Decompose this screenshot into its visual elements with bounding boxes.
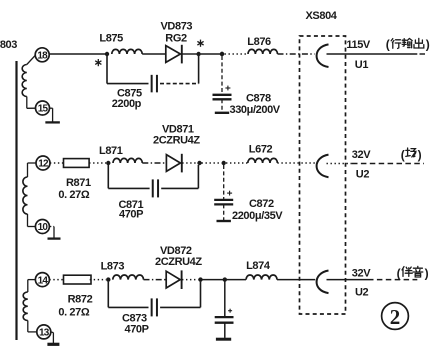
svg-text:): )	[426, 38, 430, 52]
svg-text:L875: L875	[99, 32, 123, 44]
svg-text:U2: U2	[355, 287, 369, 299]
svg-text:L871: L871	[99, 145, 123, 157]
svg-text:32V: 32V	[352, 267, 371, 279]
svg-text:14: 14	[38, 275, 49, 286]
svg-text:2: 2	[390, 305, 401, 329]
svg-text:VD871: VD871	[162, 123, 194, 135]
svg-text:VD872: VD872	[160, 245, 192, 257]
svg-text:(: (	[397, 267, 401, 281]
svg-text:12: 12	[38, 159, 49, 170]
svg-text:U2: U2	[356, 168, 370, 180]
svg-text:C873: C873	[122, 313, 147, 325]
svg-text:2CZRU4Z: 2CZRU4Z	[155, 256, 202, 268]
svg-text:15: 15	[38, 104, 49, 115]
svg-text:10: 10	[38, 222, 49, 233]
svg-text:13: 13	[39, 328, 50, 339]
svg-text:L874: L874	[246, 260, 271, 272]
svg-text:32V: 32V	[352, 149, 371, 161]
svg-text:C872: C872	[249, 198, 274, 210]
svg-text:VD873: VD873	[161, 21, 193, 33]
svg-text:): )	[425, 267, 429, 281]
svg-text:0. 27Ω: 0. 27Ω	[58, 306, 89, 318]
svg-text:): )	[418, 148, 422, 162]
svg-text:(: (	[401, 148, 405, 162]
svg-text:(: (	[386, 38, 390, 52]
svg-text:2CZRU4Z: 2CZRU4Z	[153, 135, 200, 147]
svg-text:L873: L873	[101, 260, 125, 272]
svg-text:470P: 470P	[119, 209, 143, 221]
svg-text:T803: T803	[0, 39, 17, 51]
svg-text:U1: U1	[355, 59, 369, 71]
svg-text:RG2: RG2	[165, 33, 187, 45]
svg-text:XS804: XS804	[306, 10, 338, 22]
svg-text:18: 18	[37, 51, 48, 62]
svg-text:2200p: 2200p	[112, 98, 142, 110]
svg-text:330μ/200V: 330μ/200V	[230, 104, 281, 116]
svg-text:470P: 470P	[125, 324, 149, 336]
svg-text:115V: 115V	[346, 39, 371, 51]
svg-text:L672: L672	[249, 144, 273, 156]
svg-text:L876: L876	[247, 36, 271, 48]
svg-text:C878: C878	[246, 93, 271, 105]
svg-text:R872: R872	[68, 293, 93, 305]
svg-text:2200μ/35V: 2200μ/35V	[232, 210, 283, 222]
svg-text:R871: R871	[66, 177, 91, 189]
svg-text:0. 27Ω: 0. 27Ω	[58, 189, 89, 201]
